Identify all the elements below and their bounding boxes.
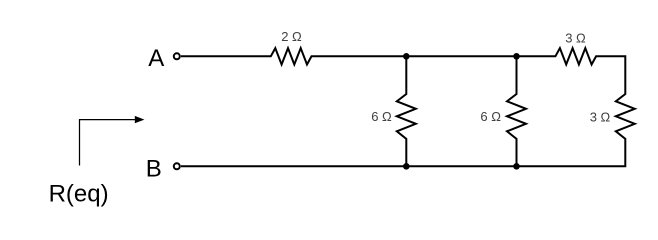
svg-text:3 Ω: 3 Ω	[565, 31, 586, 46]
svg-text:6 Ω: 6 Ω	[480, 109, 501, 124]
svg-text:R(eq): R(eq)	[49, 181, 109, 208]
svg-text:B: B	[146, 156, 162, 183]
svg-text:2 Ω: 2 Ω	[281, 29, 302, 44]
svg-text:A: A	[148, 45, 164, 72]
svg-text:3 Ω: 3 Ω	[590, 110, 611, 125]
svg-text:6 Ω: 6 Ω	[371, 109, 392, 124]
